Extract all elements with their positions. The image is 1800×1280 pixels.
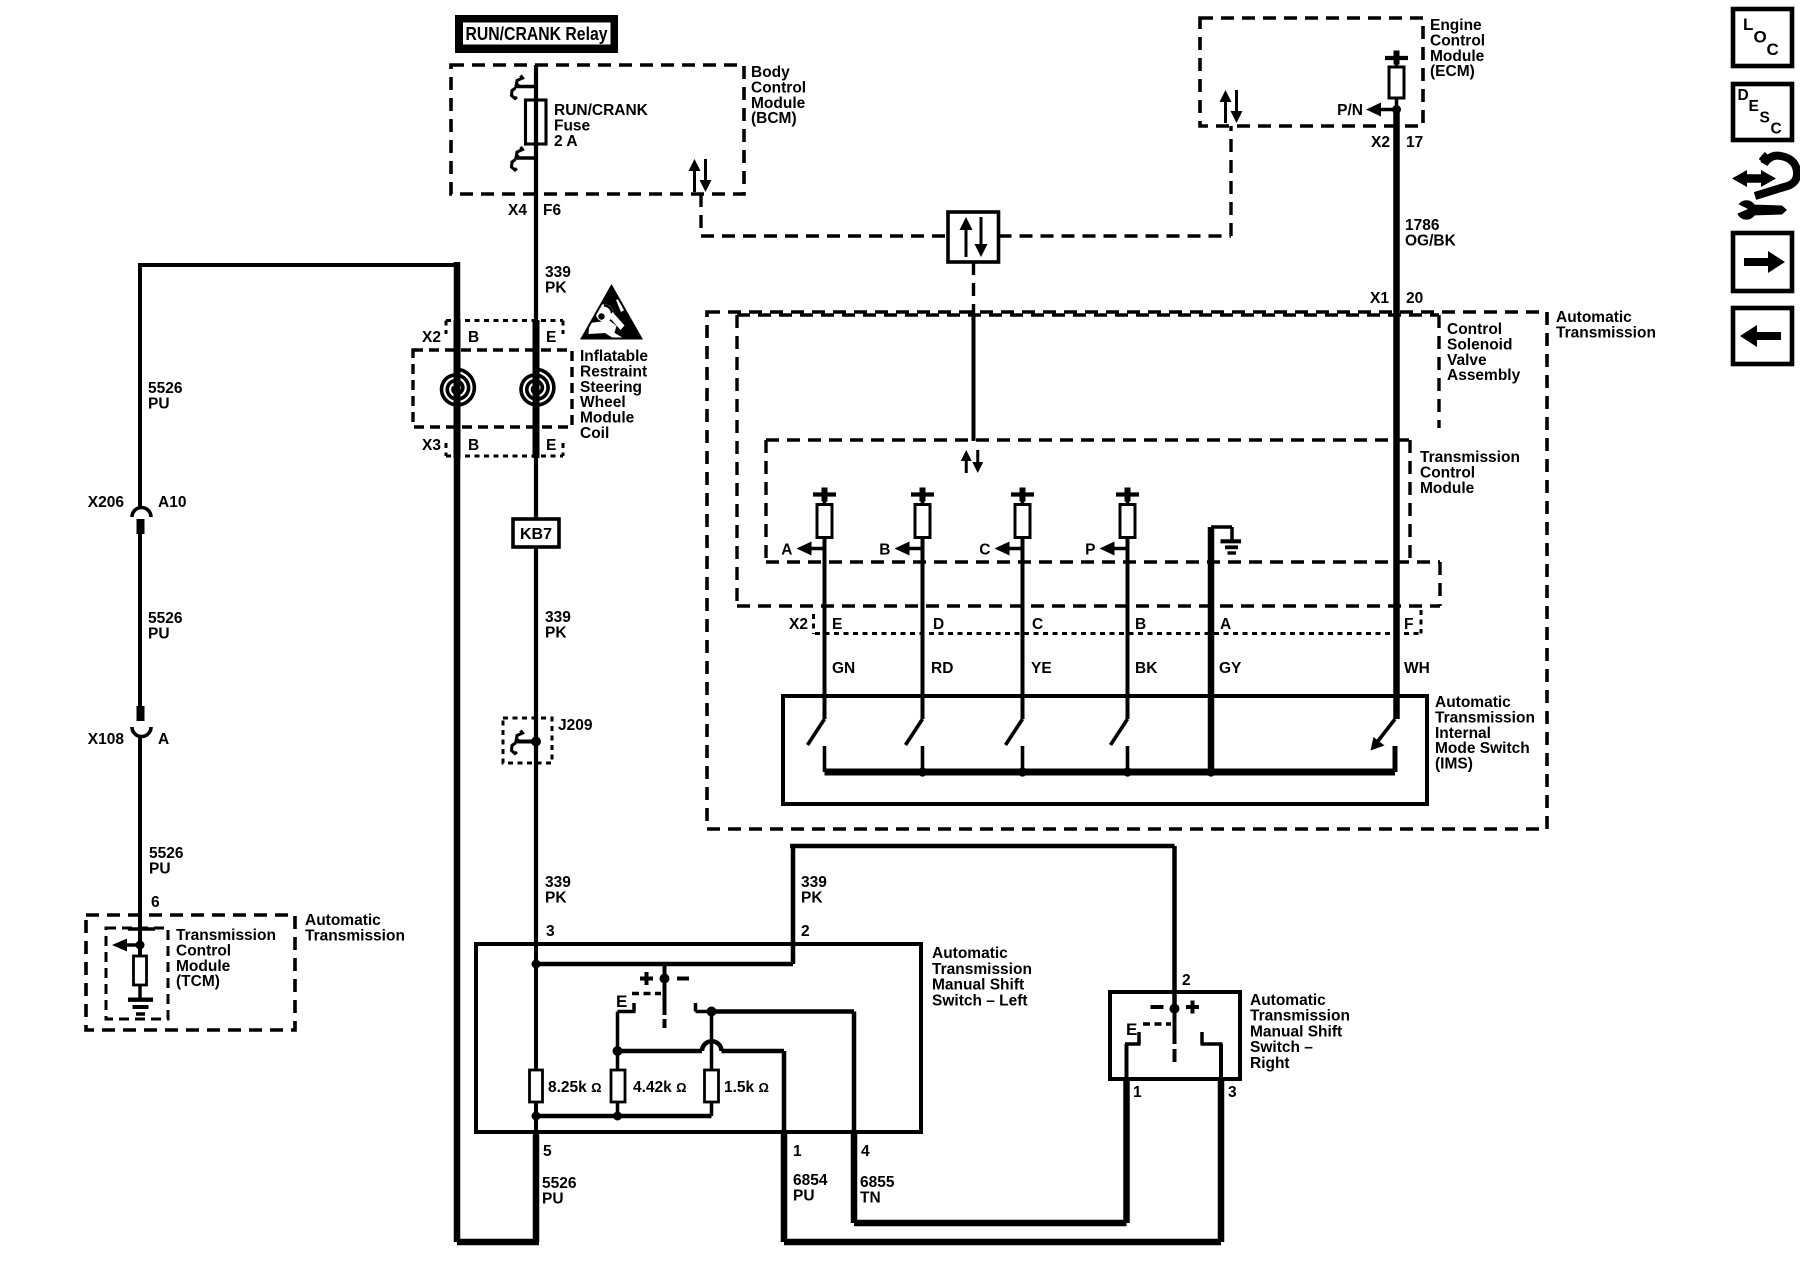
svg-text:PK: PK [801, 889, 823, 906]
left contact of left switch [613, 1003, 636, 1070]
wire contact to pin 1 with hop [618, 1041, 785, 1132]
wire label 339 PK (lower) [545, 874, 571, 906]
svg-text:Transmission: Transmission [932, 961, 1032, 978]
relay contact upper [512, 76, 538, 99]
wire label 5526 PU (2) [148, 610, 183, 642]
svg-text:X2: X2 [422, 329, 441, 346]
svg-text:PU: PU [149, 860, 171, 877]
svg-text:2: 2 [1182, 972, 1191, 989]
svg-text:(IMS): (IMS) [1435, 756, 1473, 773]
svg-text:RUN/CRANK Relay: RUN/CRANK Relay [466, 23, 609, 44]
svg-text:L: L [1743, 15, 1753, 34]
ground symbol in TCM [1211, 527, 1241, 772]
svg-text:1.5k Ω: 1.5k Ω [724, 1079, 769, 1096]
wire 5526 PU left vertical upper [138, 263, 142, 507]
svg-text:Manual Shift: Manual Shift [932, 977, 1024, 994]
svg-text:A: A [781, 542, 792, 559]
dashed wire data link down to transmission control module [972, 262, 975, 313]
svg-text:PK: PK [545, 889, 567, 906]
svg-text:X1: X1 [1370, 290, 1389, 307]
label Automatic Transmission (right) [1556, 309, 1656, 341]
icon arrows and wrench [1732, 154, 1797, 220]
svg-text:E: E [1749, 98, 1759, 115]
svg-text:C: C [979, 542, 990, 559]
wire 339 PK (coil to KB7 to J209 to switch) [534, 458, 538, 944]
wire label 339 PK (middle) [545, 609, 571, 641]
icon box arrow right [1733, 233, 1792, 291]
thick wire segment E-E through coil (right) [533, 320, 540, 458]
icon box DESC [1733, 84, 1792, 140]
connector X108 pin A [88, 706, 169, 748]
svg-text:4: 4 [861, 1143, 870, 1160]
pull-up supply bar in ECM [1385, 51, 1408, 65]
label IMS [1435, 694, 1535, 773]
svg-text:PK: PK [545, 279, 567, 296]
switch box Automatic Transmission Internal Mode Switch (IMS) [783, 696, 1427, 804]
right contact of right switch [1201, 1032, 1223, 1079]
svg-text:E: E [832, 616, 842, 633]
IMS switch blade at x=824.5 [808, 719, 825, 772]
svg-text:D: D [933, 616, 944, 633]
wire label 6854 PU [793, 1172, 828, 1204]
svg-text:Automatic: Automatic [1250, 992, 1326, 1009]
svg-text:X3: X3 [422, 437, 441, 454]
svg-text:E: E [546, 329, 556, 346]
svg-text:C: C [1032, 616, 1043, 633]
connector X206 pin A10 [88, 494, 187, 534]
splice J209 [503, 718, 552, 763]
wire 5526 PU left vertical lower [138, 738, 142, 929]
wire 1786 OG/BK (ECM to IMS) [1393, 110, 1400, 720]
svg-text:A: A [1220, 616, 1231, 633]
wire solenoid C to IMS pin C [1021, 538, 1025, 720]
park contact E right switch [1126, 1020, 1171, 1039]
resistor 4.42k [611, 1070, 687, 1102]
svg-text:Right: Right [1250, 1055, 1290, 1072]
svg-text:PU: PU [793, 1187, 815, 1204]
polarity marks left switch [640, 972, 689, 985]
label Inflatable Restraint Steering Wheel Module Coil [580, 348, 648, 442]
resistor in ECM [1389, 58, 1404, 110]
wire 6855 TN pin4 to right switch pin1 [854, 1079, 1127, 1223]
svg-text:PU: PU [148, 395, 170, 412]
module box Control Solenoid Valve Assembly (dashed) [737, 315, 1440, 606]
svg-text:X206: X206 [88, 494, 125, 511]
solenoid driver B in TCM [911, 488, 934, 538]
svg-text:OG/BK: OG/BK [1405, 232, 1457, 249]
svg-text:F6: F6 [543, 202, 561, 219]
svg-text:Assembly: Assembly [1447, 367, 1521, 384]
svg-text:Transmission: Transmission [1250, 1008, 1350, 1025]
wire label 1786 OG/BK [1405, 217, 1457, 249]
svg-text:2: 2 [801, 923, 810, 940]
wire RUN/CRANK relay feed (536) inside BCM [534, 65, 538, 320]
data link connector box [948, 212, 999, 262]
wire label 6855 TN [860, 1174, 895, 1206]
TCM connector entry bar [128, 927, 155, 931]
label Control Solenoid Valve Assembly [1447, 321, 1521, 384]
connector label X2 17 [1371, 134, 1423, 151]
svg-text:2 A: 2 A [554, 133, 578, 150]
coil symbol right [521, 369, 554, 405]
svg-text:RD: RD [931, 660, 953, 677]
signal arrow P [1085, 542, 1128, 559]
svg-text:(BCM): (BCM) [751, 110, 797, 127]
svg-text:Transmission: Transmission [305, 927, 405, 944]
wire pin 3 inside left switch [534, 944, 538, 1070]
svg-text:BK: BK [1135, 660, 1158, 677]
svg-text:Coil: Coil [580, 425, 609, 442]
warning triangle SIR icon [580, 284, 643, 342]
connector X2 of SIR coil [422, 321, 563, 347]
signal arrow B [879, 542, 923, 559]
svg-text:P/N: P/N [1337, 102, 1363, 119]
module box BCM (dashed) [451, 65, 744, 194]
coil symbol left [442, 369, 475, 405]
relay contact lower [512, 147, 538, 170]
wire 339 PK to pin 2 loop [790, 846, 1175, 992]
right contact of left switch [696, 1003, 717, 1070]
label Engine Control Module (ECM) [1430, 17, 1485, 80]
svg-text:8.25k Ω: 8.25k Ω [548, 1079, 602, 1096]
svg-text:Module: Module [1420, 480, 1475, 497]
connector label X1 20 [1370, 290, 1423, 307]
connector X2 row labels [789, 610, 1421, 634]
svg-text:E: E [546, 437, 556, 454]
label Manual Shift Switch Left [932, 945, 1032, 1009]
svg-text:E: E [616, 992, 627, 1011]
park contact E left switch [616, 992, 661, 1011]
module box TCM inner (dashed) [106, 928, 168, 1019]
signal arrow A [781, 542, 825, 559]
module box Automatic Transmission around TCM (dashed) [86, 915, 295, 1030]
up/down arrows in ECM [1220, 90, 1243, 123]
up/down arrows in data link connector [960, 217, 988, 257]
svg-text:A10: A10 [158, 494, 186, 511]
ground symbol in TCM module [128, 985, 153, 1014]
wire pin 5 inside box [534, 1116, 538, 1132]
svg-text:Switch – Left: Switch – Left [932, 992, 1028, 1009]
svg-text:Switch –: Switch – [1250, 1039, 1313, 1056]
module box ECM (dashed) [1200, 18, 1423, 126]
wire 5526 PU top horizontal [138, 263, 457, 267]
svg-text:O: O [1754, 28, 1767, 47]
IMS switch blade F with arrow [1371, 719, 1396, 772]
svg-text:GN: GN [832, 660, 855, 677]
module box Transmission Control Module (dashed) [766, 440, 1440, 562]
thick wire segment B-B through coil (left) [454, 320, 461, 458]
solenoid driver C in TCM [1011, 488, 1034, 538]
switch box Automatic Transmission Manual Shift Switch - Left [476, 944, 921, 1132]
connector X3 of SIR coil [422, 437, 563, 456]
dashed wire data link to ECM [999, 126, 1232, 236]
svg-text:X4: X4 [508, 202, 527, 219]
svg-text:TN: TN [860, 1189, 881, 1206]
svg-text:4.42k Ω: 4.42k Ω [633, 1079, 687, 1096]
switch blade right switch [1170, 992, 1180, 1062]
solenoid driver A in TCM [813, 488, 836, 538]
module box Inflatable Restraint Steering Wheel Module Coil (dashed) [413, 350, 572, 427]
wire label 5526 PU (1) [148, 380, 183, 412]
resistor 8.25k [530, 1070, 602, 1102]
resistor in TCM [134, 956, 147, 985]
resistor bottom bus [532, 1102, 712, 1121]
wire node at pin3/pin2 crossbar [532, 960, 794, 969]
svg-text:X108: X108 [88, 731, 125, 748]
icon box arrow left [1733, 308, 1792, 364]
svg-text:YE: YE [1031, 660, 1052, 677]
wire label 5526 PU (bottom) [542, 1175, 577, 1207]
wire label 339 PK (pin2) [801, 874, 827, 906]
wire 5526 PU return vertical [454, 262, 461, 1242]
node P/N with arrow [1337, 102, 1401, 119]
wire data link to TCM (solid) [972, 313, 976, 441]
switch box Automatic Transmission Manual Shift Switch - Right [1110, 992, 1240, 1079]
svg-text:3: 3 [1228, 1084, 1237, 1101]
left contact of right switch [1125, 1032, 1141, 1079]
svg-text:P: P [1085, 542, 1095, 559]
solenoid driver P in TCM [1116, 488, 1139, 538]
label Automatic Transmission (left) [305, 912, 405, 944]
svg-text:Transmission: Transmission [1556, 324, 1656, 341]
svg-text:X2: X2 [789, 616, 808, 633]
module box Automatic Transmission (dashed) [707, 312, 1547, 829]
svg-text:PU: PU [542, 1190, 564, 1207]
resistor 1.5k [705, 1070, 769, 1102]
icon box LOC [1733, 9, 1792, 66]
wire label 339 PK (upper) [545, 264, 571, 296]
connector label X4 F6 [508, 202, 561, 219]
svg-text:PK: PK [545, 624, 567, 641]
svg-text:E: E [1126, 1020, 1137, 1039]
wire 5526 PU from pin 5 [457, 1132, 539, 1242]
polarity marks right switch [1151, 1001, 1200, 1014]
svg-text:D: D [1738, 87, 1749, 104]
IMS switch blade at x=1127.5 [1111, 719, 1128, 772]
label Transmission Control Module [1420, 449, 1520, 497]
label Body Control Module (BCM) [751, 64, 806, 127]
svg-text:A: A [158, 731, 169, 748]
svg-text:KB7: KB7 [520, 526, 552, 543]
label RUN/CRANK Fuse 2 A [554, 102, 649, 150]
svg-text:5: 5 [543, 1143, 552, 1160]
svg-text:J209: J209 [558, 717, 593, 734]
wire solenoid B to IMS pin D [921, 538, 925, 720]
up/down arrows in BCM [689, 159, 712, 192]
wire into TCM with arrow [112, 929, 145, 956]
wire contact to pin 4 [712, 1012, 855, 1133]
label box RUN/CRANK Relay [455, 15, 618, 53]
svg-text:B: B [1135, 616, 1146, 633]
IMS common bus [825, 767, 1396, 776]
svg-text:(TCM): (TCM) [176, 973, 220, 990]
label Manual Shift Switch Right [1250, 992, 1350, 1072]
svg-text:17: 17 [1406, 134, 1423, 151]
wire 6854 PU pin1 to right switch pin3 [784, 1079, 1221, 1242]
svg-text:1: 1 [1133, 1084, 1142, 1101]
svg-text:20: 20 [1406, 290, 1423, 307]
svg-text:WH: WH [1404, 660, 1430, 677]
svg-text:C: C [1767, 40, 1779, 59]
svg-text:1: 1 [793, 1143, 802, 1160]
svg-text:GY: GY [1219, 660, 1242, 677]
wire solenoid P to IMS pin B [1126, 538, 1130, 720]
fuse RUN/CRANK Fuse 2 A [526, 100, 547, 144]
up/down arrows in transmission control module [961, 450, 984, 473]
svg-text:C: C [1771, 121, 1782, 138]
svg-text:S: S [1760, 110, 1770, 127]
svg-text:PU: PU [148, 625, 170, 642]
wire 5526 PU left vertical middle [138, 534, 142, 706]
IMS switch blade at x=1022.5 [1006, 719, 1023, 772]
wire solenoid A to IMS pin E [823, 538, 827, 720]
svg-text:(ECM): (ECM) [1430, 63, 1475, 80]
dashed wire BCM to data link connector [701, 194, 948, 236]
svg-text:B: B [468, 329, 479, 346]
switch blade left switch [660, 964, 670, 1028]
IMS switch blade at x=922.5 [906, 719, 923, 772]
signal arrow C [979, 542, 1023, 559]
svg-text:Manual Shift: Manual Shift [1250, 1023, 1342, 1040]
svg-text:B: B [879, 542, 890, 559]
wire color labels GN RD YE BK GY WH [832, 660, 1430, 677]
svg-text:X2: X2 [1371, 134, 1390, 151]
label box KB7 [513, 519, 559, 547]
svg-text:Automatic: Automatic [932, 945, 1008, 962]
svg-text:B: B [468, 437, 479, 454]
svg-text:F: F [1404, 616, 1413, 633]
label Transmission Control Module (TCM) [176, 927, 276, 990]
wire label 5526 PU (3) [149, 845, 184, 877]
svg-text:3: 3 [546, 923, 555, 940]
svg-text:6: 6 [151, 894, 160, 911]
